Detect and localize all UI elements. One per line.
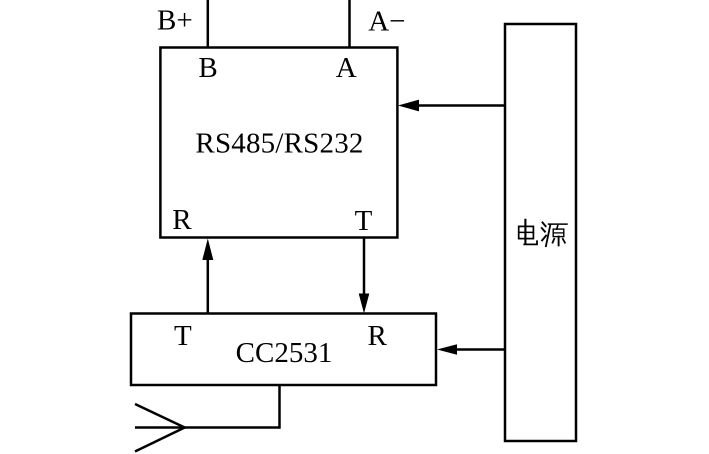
svg-text:A−: A− [368,5,405,37]
svg-text:A: A [336,52,357,84]
svg-text:B: B [198,52,217,84]
svg-text:CC2531: CC2531 [236,337,333,369]
svg-text:B+: B+ [157,5,193,37]
svg-text:T: T [174,320,192,352]
svg-text:R: R [368,320,388,352]
svg-text:RS485/RS232: RS485/RS232 [195,128,363,160]
svg-text:R: R [172,204,192,236]
svg-text:T: T [355,205,373,237]
